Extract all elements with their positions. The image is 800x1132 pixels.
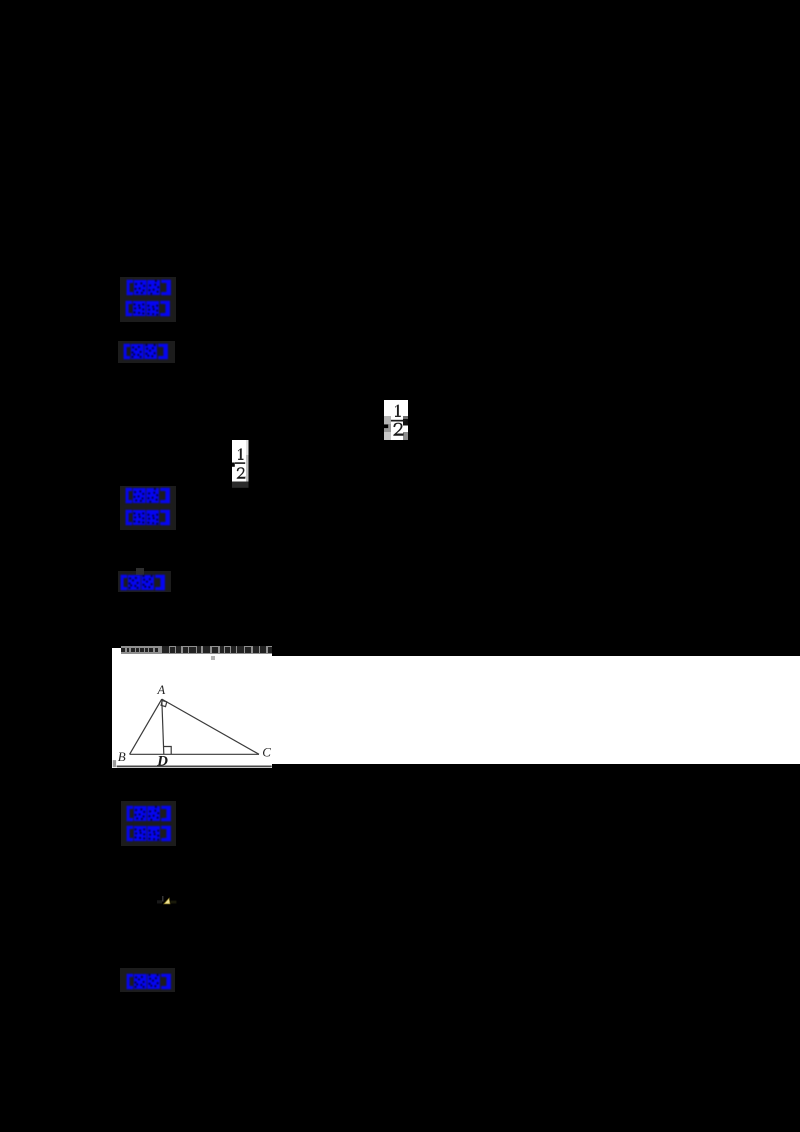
blue label "jieda" (solution) [124, 509, 172, 527]
small angle square at A [161, 701, 167, 707]
triangle diagram [112, 648, 282, 769]
grey caption band with clipped text bottoms [121, 646, 272, 654]
dark halo behind label pair 1 [120, 277, 176, 322]
dark halo behind label pair 3 [121, 801, 176, 846]
dark halo behind label pair 2 [120, 486, 176, 530]
small yellow angle mark in solution body [155, 893, 181, 907]
blue label "fenxi" (analysis) [124, 487, 172, 505]
blue label "jieda" (solution) [125, 825, 173, 843]
blue label "dianping" (comment) [122, 343, 170, 361]
side AB [129, 699, 161, 754]
right angle mark at D [163, 747, 170, 755]
grey nub at left end of rule [112, 760, 115, 767]
horizontal rule under diagram [116, 766, 271, 768]
blue label "fenxi" (analysis) [125, 805, 173, 823]
blue label "fenxi" (analysis) [125, 279, 173, 297]
blue label "dianping" (comment) [125, 973, 173, 991]
grey artifact block above label 6 [136, 568, 144, 575]
white image area (question diagram block), left part [112, 648, 272, 768]
blue label "jieda" (solution) [124, 300, 172, 318]
fraction one-half image 2 [232, 440, 249, 489]
white highlighted row, right part [271, 656, 800, 765]
svg-text:A: A [156, 683, 165, 697]
fraction one-half image 1 [384, 400, 408, 440]
dark halo behind label 3 [118, 341, 175, 363]
altitude AD [161, 699, 163, 754]
side AC [161, 699, 258, 754]
svg-text:B: B [117, 749, 125, 764]
svg-text:C: C [262, 745, 271, 760]
dark halo behind label 6 [118, 571, 171, 592]
blue label "dianping" (comment) [119, 574, 167, 592]
small grey smudge below band [211, 656, 215, 660]
dark halo behind label 9 [120, 968, 175, 992]
side BC [129, 753, 258, 755]
